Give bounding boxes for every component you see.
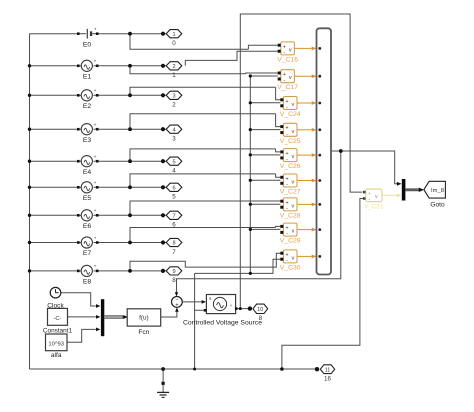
svg-text:+: + — [94, 60, 97, 65]
svg-text:2: 2 — [172, 64, 175, 70]
svg-text:-: - — [286, 182, 288, 188]
svg-text:+: + — [94, 155, 97, 160]
svg-text:+: + — [175, 303, 178, 309]
svg-text:4: 4 — [172, 127, 175, 133]
svg-text:v: v — [289, 75, 292, 81]
svg-text:V_C30: V_C30 — [280, 264, 301, 271]
svg-text:+: + — [94, 209, 97, 214]
svg-text:V_C31: V_C31 — [364, 203, 383, 210]
svg-text:2: 2 — [172, 102, 176, 109]
svg-text:V_C24: V_C24 — [280, 111, 301, 118]
svg-text:3: 3 — [172, 93, 175, 99]
svg-text:V_C27: V_C27 — [280, 189, 301, 196]
svg-text:+: + — [94, 89, 97, 94]
svg-text:Goto: Goto — [430, 202, 445, 209]
svg-text:E7: E7 — [83, 250, 92, 257]
svg-text:-: - — [286, 105, 288, 111]
svg-text:-: - — [284, 50, 286, 56]
svg-text:v: v — [292, 229, 295, 235]
svg-text:11: 11 — [325, 367, 331, 373]
svg-text:-: - — [286, 258, 288, 264]
svg-text:10: 10 — [257, 307, 263, 313]
svg-text:8: 8 — [172, 241, 175, 247]
svg-text:5: 5 — [172, 159, 175, 165]
svg-text:v: v — [292, 203, 295, 209]
svg-text:E8: E8 — [83, 279, 92, 286]
svg-text:5: 5 — [172, 194, 176, 201]
svg-text:v: v — [292, 129, 295, 135]
svg-text:v: v — [292, 154, 295, 160]
svg-text:v: v — [375, 194, 378, 200]
svg-text:E5: E5 — [83, 195, 92, 202]
svg-text:-: - — [286, 231, 288, 237]
svg-text:E6: E6 — [83, 223, 92, 230]
svg-text:+: + — [94, 236, 97, 241]
svg-text:-C-: -C- — [53, 316, 61, 322]
svg-text:0: 0 — [172, 40, 176, 47]
svg-text:V_C16: V_C16 — [277, 56, 298, 63]
svg-text:alfa: alfa — [51, 352, 62, 359]
svg-text:V_C26: V_C26 — [280, 163, 301, 170]
svg-text:4: 4 — [172, 168, 176, 175]
svg-text:E1: E1 — [83, 73, 92, 80]
svg-text:-: - — [286, 157, 288, 163]
svg-text:v: v — [292, 102, 295, 108]
svg-text:3: 3 — [172, 136, 176, 143]
svg-text:7: 7 — [172, 249, 176, 256]
svg-text:E2: E2 — [83, 103, 92, 110]
svg-text:7: 7 — [172, 213, 175, 219]
svg-text:6: 6 — [172, 185, 175, 191]
svg-text:v: v — [289, 47, 292, 53]
svg-text:+: + — [94, 27, 97, 32]
svg-text:-: - — [286, 206, 288, 212]
svg-text:+: + — [230, 303, 233, 308]
svg-text:Fcn: Fcn — [138, 329, 149, 336]
svg-text:+: + — [94, 123, 97, 128]
svg-text:+: + — [94, 181, 97, 186]
svg-text:v: v — [292, 180, 295, 186]
svg-text:8: 8 — [259, 315, 263, 322]
svg-text:E3: E3 — [83, 137, 92, 144]
svg-text:E0: E0 — [83, 41, 92, 48]
svg-text:-: - — [286, 131, 288, 137]
svg-text:6: 6 — [172, 222, 176, 229]
svg-text:Im_8: Im_8 — [431, 188, 444, 194]
svg-text:16: 16 — [324, 375, 331, 382]
svg-text:E4: E4 — [83, 169, 92, 176]
svg-text:-: - — [284, 78, 286, 84]
svg-text:10^93: 10^93 — [48, 341, 64, 347]
svg-text:9: 9 — [172, 269, 175, 275]
svg-text:f(u): f(u) — [139, 315, 149, 322]
svg-text:Controlled Voltage Source: Controlled Voltage Source — [183, 319, 262, 326]
svg-text:8: 8 — [172, 277, 176, 284]
svg-text:V_C25: V_C25 — [280, 138, 301, 145]
svg-text:+: + — [94, 265, 97, 270]
svg-text:1: 1 — [172, 72, 176, 79]
svg-text:1: 1 — [172, 32, 175, 38]
svg-text:V_C28: V_C28 — [280, 212, 301, 219]
svg-text:V_C29: V_C29 — [280, 238, 301, 245]
svg-text:v: v — [292, 255, 295, 261]
svg-text:V_C17: V_C17 — [277, 84, 298, 91]
svg-text:+: + — [368, 191, 371, 196]
